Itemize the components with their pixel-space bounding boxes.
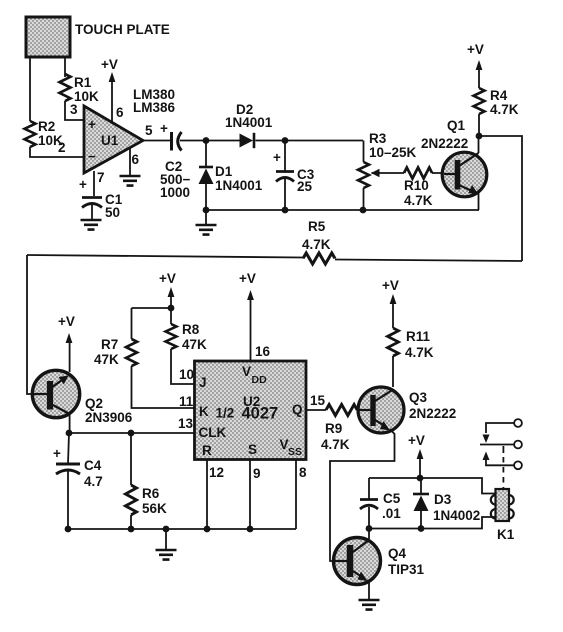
ground below D1 <box>196 210 217 235</box>
svg-text:4.7K: 4.7K <box>405 345 434 360</box>
node: Q1 collector / R4 <box>476 133 483 140</box>
svg-text:25: 25 <box>297 179 313 194</box>
svg-text:+: + <box>53 446 61 461</box>
svg-text:SS: SS <box>288 446 302 458</box>
wire: U1 output to C2 <box>142 140 170 142</box>
svg-text:15: 15 <box>310 393 326 408</box>
wire: D2 to R3 <box>256 140 364 142</box>
node: +V on rail <box>417 475 424 482</box>
node: R7/R8 top junction <box>168 305 175 312</box>
transistor Q4 TIP31 <box>333 538 425 585</box>
diode D2 <box>225 102 273 148</box>
node: pin 12 on bus <box>204 526 211 533</box>
svg-text:4.7K: 4.7K <box>321 437 350 452</box>
svg-text:R4: R4 <box>490 88 508 103</box>
U2 pin 8 lead <box>296 460 307 529</box>
node: R3 bottom <box>360 207 367 214</box>
U1 pin 7 lead <box>79 170 105 196</box>
capacitor C2 <box>160 132 191 200</box>
node: C2/D1 junction <box>203 137 210 144</box>
resistor R9 <box>321 405 358 453</box>
pin 10 label <box>179 367 194 382</box>
node: C4 bottom on bus <box>65 526 72 533</box>
svg-text:47K: 47K <box>182 337 207 352</box>
svg-text:2N2222: 2N2222 <box>409 406 456 421</box>
svg-text:V: V <box>242 364 251 379</box>
svg-text:R3: R3 <box>369 131 387 146</box>
svg-text:+V: +V <box>408 433 425 448</box>
wire: C2 to D2 with node at D1 tap <box>180 140 241 142</box>
svg-text:13: 13 <box>178 416 194 431</box>
resistor R1 <box>60 74 100 104</box>
svg-text:S: S <box>248 442 257 457</box>
svg-text:+V: +V <box>159 271 176 286</box>
U1 part labels LM380 LM386 <box>133 87 176 115</box>
svg-text:R5: R5 <box>308 219 326 234</box>
relay coil K1 <box>491 489 515 542</box>
svg-text:+: + <box>79 177 87 192</box>
resistor R6 <box>126 433 168 529</box>
node: D1 bottom <box>203 207 210 214</box>
svg-text:+: + <box>160 121 168 136</box>
svg-text:C5: C5 <box>383 491 401 506</box>
svg-text:12: 12 <box>209 465 224 480</box>
svg-text:Q4: Q4 <box>388 546 407 561</box>
svg-text:Q1: Q1 <box>447 118 466 133</box>
+V supply arrow above R4 <box>467 42 484 88</box>
svg-text:+V: +V <box>58 314 75 329</box>
svg-text:5: 5 <box>145 123 153 138</box>
relay mechanical dashed link <box>502 446 504 489</box>
svg-text:4.7K: 4.7K <box>302 237 331 252</box>
diode D3 <box>413 478 480 529</box>
ground at U1 pin 6 (bottom) <box>120 148 141 186</box>
+V supply arrow above U2 pin 16 <box>239 271 271 360</box>
resistor R8 <box>166 308 208 384</box>
wire: bottom rail C5/D3/relay/Q4 collector <box>369 517 496 529</box>
svg-text:56K: 56K <box>142 501 167 516</box>
+V supply arrow above Q2 <box>58 314 75 372</box>
svg-text:R2: R2 <box>38 119 55 134</box>
svg-text:10: 10 <box>179 367 194 382</box>
relay contact: common armature <box>480 441 522 449</box>
transistor Q3 2N2222 <box>358 387 456 433</box>
svg-text:47K: 47K <box>94 352 119 367</box>
svg-text:TOUCH PLATE: TOUCH PLATE <box>75 22 170 37</box>
svg-text:Q: Q <box>292 402 303 417</box>
node: C3 top junction <box>282 137 289 144</box>
transistor Q2 2N3906 <box>32 370 133 425</box>
+V supply arrow at U1 pin 6 <box>101 57 124 122</box>
+V supply arrow above C5/D3 rail <box>408 433 425 478</box>
svg-text:J: J <box>199 375 207 390</box>
resistor R4 <box>474 88 519 136</box>
svg-text:DD: DD <box>252 374 268 386</box>
wire: R5 left down to Q2 base <box>27 255 33 394</box>
resistor R5 <box>27 219 522 264</box>
svg-text:4.7K: 4.7K <box>490 102 519 117</box>
svg-text:D3: D3 <box>434 492 452 507</box>
svg-text:4027: 4027 <box>242 405 279 423</box>
svg-text:R11: R11 <box>406 329 431 344</box>
wire: plate left lead to R2 <box>29 57 31 121</box>
+V supply arrow above R8 <box>159 271 176 308</box>
svg-text:+V: +V <box>239 271 256 286</box>
wire: bottom rail D1/C3/R3/Q1 emitter <box>206 209 479 211</box>
svg-text:9: 9 <box>253 466 261 481</box>
svg-text:+: + <box>88 117 96 132</box>
svg-text:+: + <box>273 150 281 165</box>
wire: R2 to pin 2 <box>30 147 84 157</box>
svg-text:1N4001: 1N4001 <box>215 178 263 193</box>
svg-text:R7: R7 <box>101 337 118 352</box>
relay contact: NO terminal <box>483 452 522 470</box>
svg-text:1000: 1000 <box>160 185 190 200</box>
svg-text:K: K <box>199 404 209 419</box>
svg-text:−: − <box>88 149 96 164</box>
touch plate <box>26 17 170 57</box>
node: R6 bottom on bus <box>128 526 135 533</box>
diode D1 <box>199 141 263 211</box>
wire: Q1 collector to R4 node <box>478 136 480 153</box>
U2 pin 9 lead <box>250 460 261 529</box>
op-amp U1 <box>84 106 143 173</box>
svg-text:1N4001: 1N4001 <box>225 115 273 130</box>
svg-text:2N3906: 2N3906 <box>85 410 133 425</box>
wire: Q4 emitter to ground <box>368 582 370 599</box>
svg-text:6: 6 <box>116 105 124 120</box>
potentiometer R3 <box>358 131 417 210</box>
svg-text:2: 2 <box>58 140 66 155</box>
svg-text:6: 6 <box>132 152 140 167</box>
svg-text:11: 11 <box>179 394 194 409</box>
svg-text:4.7K: 4.7K <box>404 193 433 208</box>
svg-text:TIP31: TIP31 <box>388 562 425 577</box>
wire: Q2 collector to CLK rail <box>69 414 71 433</box>
node: C3 bottom <box>282 207 289 214</box>
svg-text:+V: +V <box>101 57 118 72</box>
node: Q2 collector / C4 <box>66 430 73 437</box>
pin 13 label <box>178 416 194 431</box>
resistor R11 <box>388 328 434 387</box>
svg-text:R6: R6 <box>142 486 160 501</box>
wire: Q3 emitter to Q4 base <box>330 429 395 561</box>
svg-text:1N4002: 1N4002 <box>433 508 480 523</box>
wire: Q4 collector to bottom rail <box>368 529 370 540</box>
node: ground stem on bus <box>163 526 170 533</box>
wire: plate right lead to R1 <box>64 57 66 77</box>
relay contact: NC terminal <box>483 419 522 443</box>
svg-text:10–25K: 10–25K <box>369 145 417 160</box>
node: C5 bottom / Q4 collector <box>366 525 373 532</box>
resistor R2 <box>25 119 64 148</box>
svg-text:U1: U1 <box>101 133 119 148</box>
wire: R1 to pin 3 <box>65 101 84 120</box>
svg-text:LM386: LM386 <box>133 100 176 115</box>
svg-text:D1: D1 <box>215 164 233 179</box>
svg-text:.01: .01 <box>382 506 401 521</box>
svg-text:16: 16 <box>255 344 271 359</box>
+V supply arrow above R11 <box>382 278 399 328</box>
svg-text:Q3: Q3 <box>409 390 428 405</box>
svg-text:C4: C4 <box>84 458 102 473</box>
wire: +V rail over C5/D3 to relay <box>369 478 496 494</box>
pin 5 output label <box>145 121 168 138</box>
wire: CLK rail to U2 pin 13 <box>69 432 194 434</box>
capacitor C3 <box>273 141 315 211</box>
wire: R7 top to R8 node <box>132 307 172 309</box>
svg-text:50: 50 <box>105 205 120 220</box>
svg-text:Q2: Q2 <box>85 396 103 411</box>
U2 pin 12 lead <box>207 460 224 529</box>
node: D3 bottom <box>418 525 425 532</box>
svg-text:+V: +V <box>467 42 484 57</box>
wire: R4 node right and down to R5 <box>479 136 522 261</box>
svg-text:8: 8 <box>299 465 307 480</box>
pin 3 label <box>70 102 78 117</box>
pin 2 label <box>58 140 66 155</box>
pin 11 label <box>179 394 194 409</box>
svg-text:3: 3 <box>70 102 78 117</box>
U2 pin 15 Q output wire <box>306 393 326 410</box>
wire: Q1 emitter down to bottom rail <box>478 193 480 210</box>
IC U2 1/2 4027 <box>195 361 307 460</box>
svg-text:7: 7 <box>97 170 105 185</box>
svg-text:1/2: 1/2 <box>216 406 235 421</box>
svg-text:+V: +V <box>382 278 399 293</box>
resistor R10 <box>380 168 444 209</box>
wire: ground bus <box>68 528 296 530</box>
node: R6 top <box>128 430 135 437</box>
transistor Q1 2N2222 <box>421 118 487 197</box>
capacitor C5 <box>360 478 401 529</box>
svg-text:10K: 10K <box>74 89 99 104</box>
capacitor C4 <box>53 433 103 529</box>
svg-text:R10: R10 <box>404 178 429 193</box>
ground below Q4 <box>359 600 380 610</box>
svg-text:R: R <box>202 443 212 458</box>
svg-text:R1: R1 <box>74 75 92 90</box>
svg-text:2N2222: 2N2222 <box>421 136 468 151</box>
node: pin 9 on bus <box>247 526 254 533</box>
svg-text:R8: R8 <box>182 322 200 337</box>
svg-text:CLK: CLK <box>199 425 227 440</box>
ground on bus <box>156 529 177 560</box>
svg-text:K1: K1 <box>497 527 515 542</box>
svg-text:4.7: 4.7 <box>84 474 103 489</box>
svg-text:R9: R9 <box>325 421 342 436</box>
ground below C1 <box>81 204 102 230</box>
capacitor C1 <box>82 192 123 220</box>
resistor R7 <box>94 308 194 408</box>
